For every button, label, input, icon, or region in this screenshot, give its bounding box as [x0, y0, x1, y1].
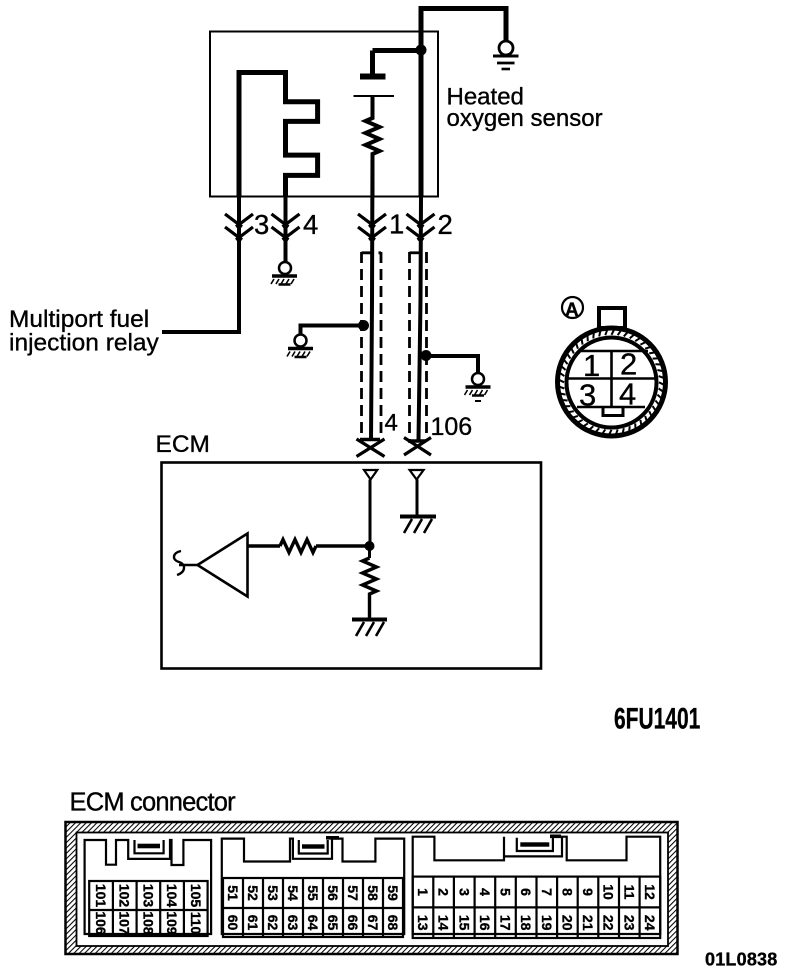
ground G3 with wire to shield1	[301, 326, 363, 335]
svg-text:63: 63	[285, 915, 301, 931]
ground G2 under pin4	[271, 262, 297, 285]
wire R2 to junction	[316, 544, 370, 548]
svg-text:10: 10	[601, 884, 617, 900]
junction dot in ECM	[365, 541, 375, 551]
svg-text:18: 18	[518, 915, 534, 931]
connector chevrons pin1	[358, 214, 386, 240]
svg-text:ECM connector: ECM connector	[70, 789, 237, 817]
svg-text:104: 104	[164, 884, 180, 908]
ECM connector outer frame	[66, 822, 678, 954]
middle group latch tab	[299, 840, 328, 854]
right group latch tab	[517, 838, 553, 851]
middle group outline	[222, 839, 404, 934]
ground G1 top right	[493, 41, 519, 69]
left group outline	[85, 840, 212, 934]
svg-text:21: 21	[580, 915, 596, 931]
wire pin4 from heater to ground	[284, 197, 288, 261]
svg-text:64: 64	[305, 915, 321, 931]
ground G4	[465, 373, 491, 401]
svg-text:20: 20	[559, 915, 575, 931]
ECM box	[162, 463, 542, 669]
svg-text:9: 9	[580, 888, 596, 896]
connector A inner ring	[567, 338, 657, 428]
svg-text:3: 3	[456, 888, 472, 896]
svg-text:7: 7	[539, 888, 555, 896]
svg-text:103: 103	[140, 884, 156, 908]
connector chevrons pin3	[225, 214, 253, 240]
svg-text:oxygen sensor: oxygen sensor	[447, 105, 603, 132]
svg-text:injection relay: injection relay	[9, 330, 160, 357]
svg-text:11: 11	[621, 885, 637, 900]
svg-text:2: 2	[438, 209, 453, 240]
connector A ring hatch	[558, 328, 666, 436]
wire pin2 down to ECM	[419, 197, 422, 440]
svg-text:22: 22	[601, 915, 617, 931]
svg-text:105: 105	[188, 884, 204, 908]
svg-text:4: 4	[385, 410, 398, 437]
sensor cell plate top (thick)	[360, 74, 386, 80]
svg-text:24: 24	[642, 915, 658, 931]
connector chevrons pin2	[407, 214, 435, 240]
junction dot top	[416, 45, 427, 56]
svg-text:51: 51	[225, 885, 241, 901]
heater element (comb)	[239, 73, 318, 198]
svg-text:66: 66	[345, 915, 361, 931]
svg-text:1: 1	[415, 888, 431, 896]
svg-text:2: 2	[436, 888, 452, 896]
svg-text:19: 19	[539, 915, 555, 931]
svg-text:61: 61	[245, 915, 261, 931]
svg-text:59: 59	[385, 885, 401, 901]
svg-text:15: 15	[456, 915, 472, 931]
svg-text:55: 55	[305, 885, 321, 901]
connector A tab	[599, 308, 625, 328]
svg-text:4: 4	[477, 888, 493, 896]
left group latch tab	[135, 840, 164, 853]
svg-text:4: 4	[303, 209, 318, 240]
svg-text:01L0838: 01L0838	[705, 950, 777, 970]
svg-text:54: 54	[285, 885, 301, 901]
svg-text:65: 65	[325, 915, 341, 931]
svg-text:13: 13	[415, 915, 431, 931]
svg-text:14: 14	[436, 915, 452, 931]
resistor R1 (sensor heater, vertical zigzag)	[366, 96, 380, 197]
ground G5	[352, 620, 387, 637]
resistor R2 horizontal	[280, 540, 316, 553]
svg-text:109: 109	[164, 911, 180, 935]
svg-text:107: 107	[117, 911, 133, 935]
svg-text:23: 23	[621, 915, 637, 931]
shield1 bottom bar and X	[360, 438, 380, 442]
svg-text:67: 67	[365, 915, 381, 931]
junction dot on shield1	[358, 320, 369, 331]
shield (dashed) around pin2 wire	[410, 252, 427, 440]
shield2 bottom bar and X	[408, 439, 426, 443]
svg-text:101: 101	[93, 884, 109, 908]
svg-text:6: 6	[518, 888, 534, 896]
svg-text:1: 1	[389, 209, 404, 240]
wire pin1 (sensor output) down to ECM	[371, 154, 373, 440]
sensor cell plate bottom (thin)	[354, 95, 395, 97]
svg-text:8: 8	[559, 888, 575, 896]
output lead with squiggle	[179, 564, 198, 567]
svg-text:68: 68	[385, 915, 401, 931]
svg-text:6FU1401: 6FU1401	[614, 703, 700, 735]
ECM pin4 entry triangle	[364, 470, 377, 480]
connector A grid	[568, 351, 656, 407]
svg-text:106: 106	[93, 911, 109, 935]
ECM connector pin grid 1-24	[413, 877, 661, 938]
resistor R3 vertical	[363, 558, 377, 618]
svg-text:17: 17	[498, 915, 514, 931]
svg-text:16: 16	[477, 915, 493, 931]
svg-text:52: 52	[245, 885, 261, 901]
wire top: sensor to top-right ground	[421, 6, 506, 197]
svg-text:110: 110	[188, 912, 204, 935]
svg-text:102: 102	[117, 884, 133, 908]
svg-text:ECM: ECM	[156, 431, 210, 458]
svg-text:62: 62	[265, 915, 281, 931]
ground G6 (106)	[400, 517, 436, 534]
ECM connector pin grid 101-110	[89, 881, 207, 936]
wire from op-amp to resistor R2	[248, 544, 281, 548]
ECM pin106 entry triangle	[410, 470, 424, 480]
svg-text:12: 12	[642, 884, 658, 900]
svg-text:108: 108	[140, 911, 156, 935]
wire pin106 to ground	[416, 480, 419, 516]
svg-text:57: 57	[345, 885, 361, 901]
connector A circled label	[562, 297, 583, 318]
heated oxygen sensor box	[210, 32, 438, 197]
wire shield2 to ground G4	[426, 356, 478, 372]
svg-text:53: 53	[265, 885, 281, 901]
wire junction to sensor cell	[373, 51, 422, 75]
op-amp triangle	[198, 534, 248, 597]
right group outline	[413, 837, 661, 934]
svg-text:56: 56	[325, 885, 341, 901]
svg-text:5: 5	[498, 888, 514, 896]
junction dot on shield2	[421, 350, 432, 361]
svg-text:3: 3	[254, 209, 269, 240]
svg-text:3: 3	[579, 378, 596, 413]
wire pin4 inside ECM	[368, 480, 372, 559]
connector A bottom notch	[603, 407, 623, 416]
svg-text:4: 4	[619, 377, 636, 412]
svg-text:106: 106	[431, 413, 473, 441]
connector chevrons pin4	[272, 214, 300, 240]
svg-text:60: 60	[225, 915, 241, 931]
svg-text:58: 58	[365, 885, 381, 901]
connector A outer ring	[558, 328, 666, 436]
shield (dashed) around pin1 wire	[362, 252, 382, 438]
wire pin3 from heater to relay callout	[162, 197, 239, 332]
ECM connector pin grid 51-68	[223, 878, 403, 937]
svg-text:A: A	[565, 300, 579, 321]
